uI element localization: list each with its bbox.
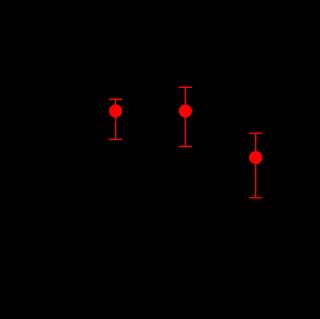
error bar 3 top cap bbox=[249, 132, 262, 134]
data point 2 bbox=[179, 104, 192, 117]
error bar 2 bottom cap bbox=[179, 145, 192, 147]
error bar 2 vertical line bbox=[184, 87, 186, 146]
error bar 1 vertical line bbox=[115, 99, 117, 139]
error bar 3 vertical line bbox=[255, 133, 257, 197]
error bar 1 top cap bbox=[109, 98, 122, 100]
data point 1 bbox=[109, 104, 122, 117]
data point 3 bbox=[249, 151, 262, 164]
error bar 3 bottom cap bbox=[249, 197, 262, 199]
error bar 2 top cap bbox=[179, 86, 192, 88]
error bar 1 bottom cap bbox=[109, 138, 122, 140]
